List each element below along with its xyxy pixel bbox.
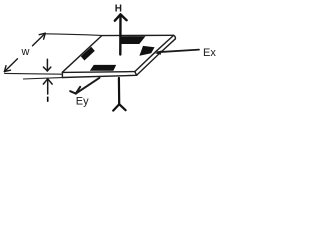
svg-text:H: H — [115, 4, 122, 15]
slot right (radiating slot on right edge) — [139, 46, 154, 56]
side face bottom right — [137, 39, 176, 75]
front right corner edge — [135, 72, 137, 76]
front top edge — [62, 71, 134, 74]
Ex arrow (points left to right slot) — [158, 50, 200, 53]
H arrow (normal axis above patch) — [115, 14, 127, 54]
w lower extension line — [4, 72, 62, 75]
svg-text:w: w — [21, 46, 30, 58]
Ex arrowhead — [155, 50, 161, 54]
patch right edge — [135, 35, 174, 71]
patch back edge — [102, 34, 174, 36]
slot front (radiating slot on front edge) — [90, 65, 116, 71]
corner sliver top-right — [174, 35, 176, 38]
slot left (radiating slot on left edge) — [81, 47, 95, 61]
w dimension arrow (double headed, along left edge) — [4, 33, 45, 71]
w leader line to back-left corner — [45, 34, 101, 36]
label l (thickness) — [47, 97, 49, 102]
svg-text:Ex: Ex — [203, 47, 216, 59]
front left corner edge — [61, 72, 63, 77]
front bottom edge — [62, 75, 136, 77]
svg-text:Ey: Ey — [76, 95, 89, 107]
Ey arrow (points down-left from front slot) — [70, 78, 99, 94]
thickness dimension up arrow — [43, 79, 52, 94]
thickness lower extension line — [23, 78, 62, 79]
slot back (radiating slot on back edge) — [122, 36, 146, 44]
thickness dimension down arrow — [43, 59, 50, 71]
patch left edge — [62, 36, 101, 73]
feed line below patch with Y end — [113, 78, 125, 111]
